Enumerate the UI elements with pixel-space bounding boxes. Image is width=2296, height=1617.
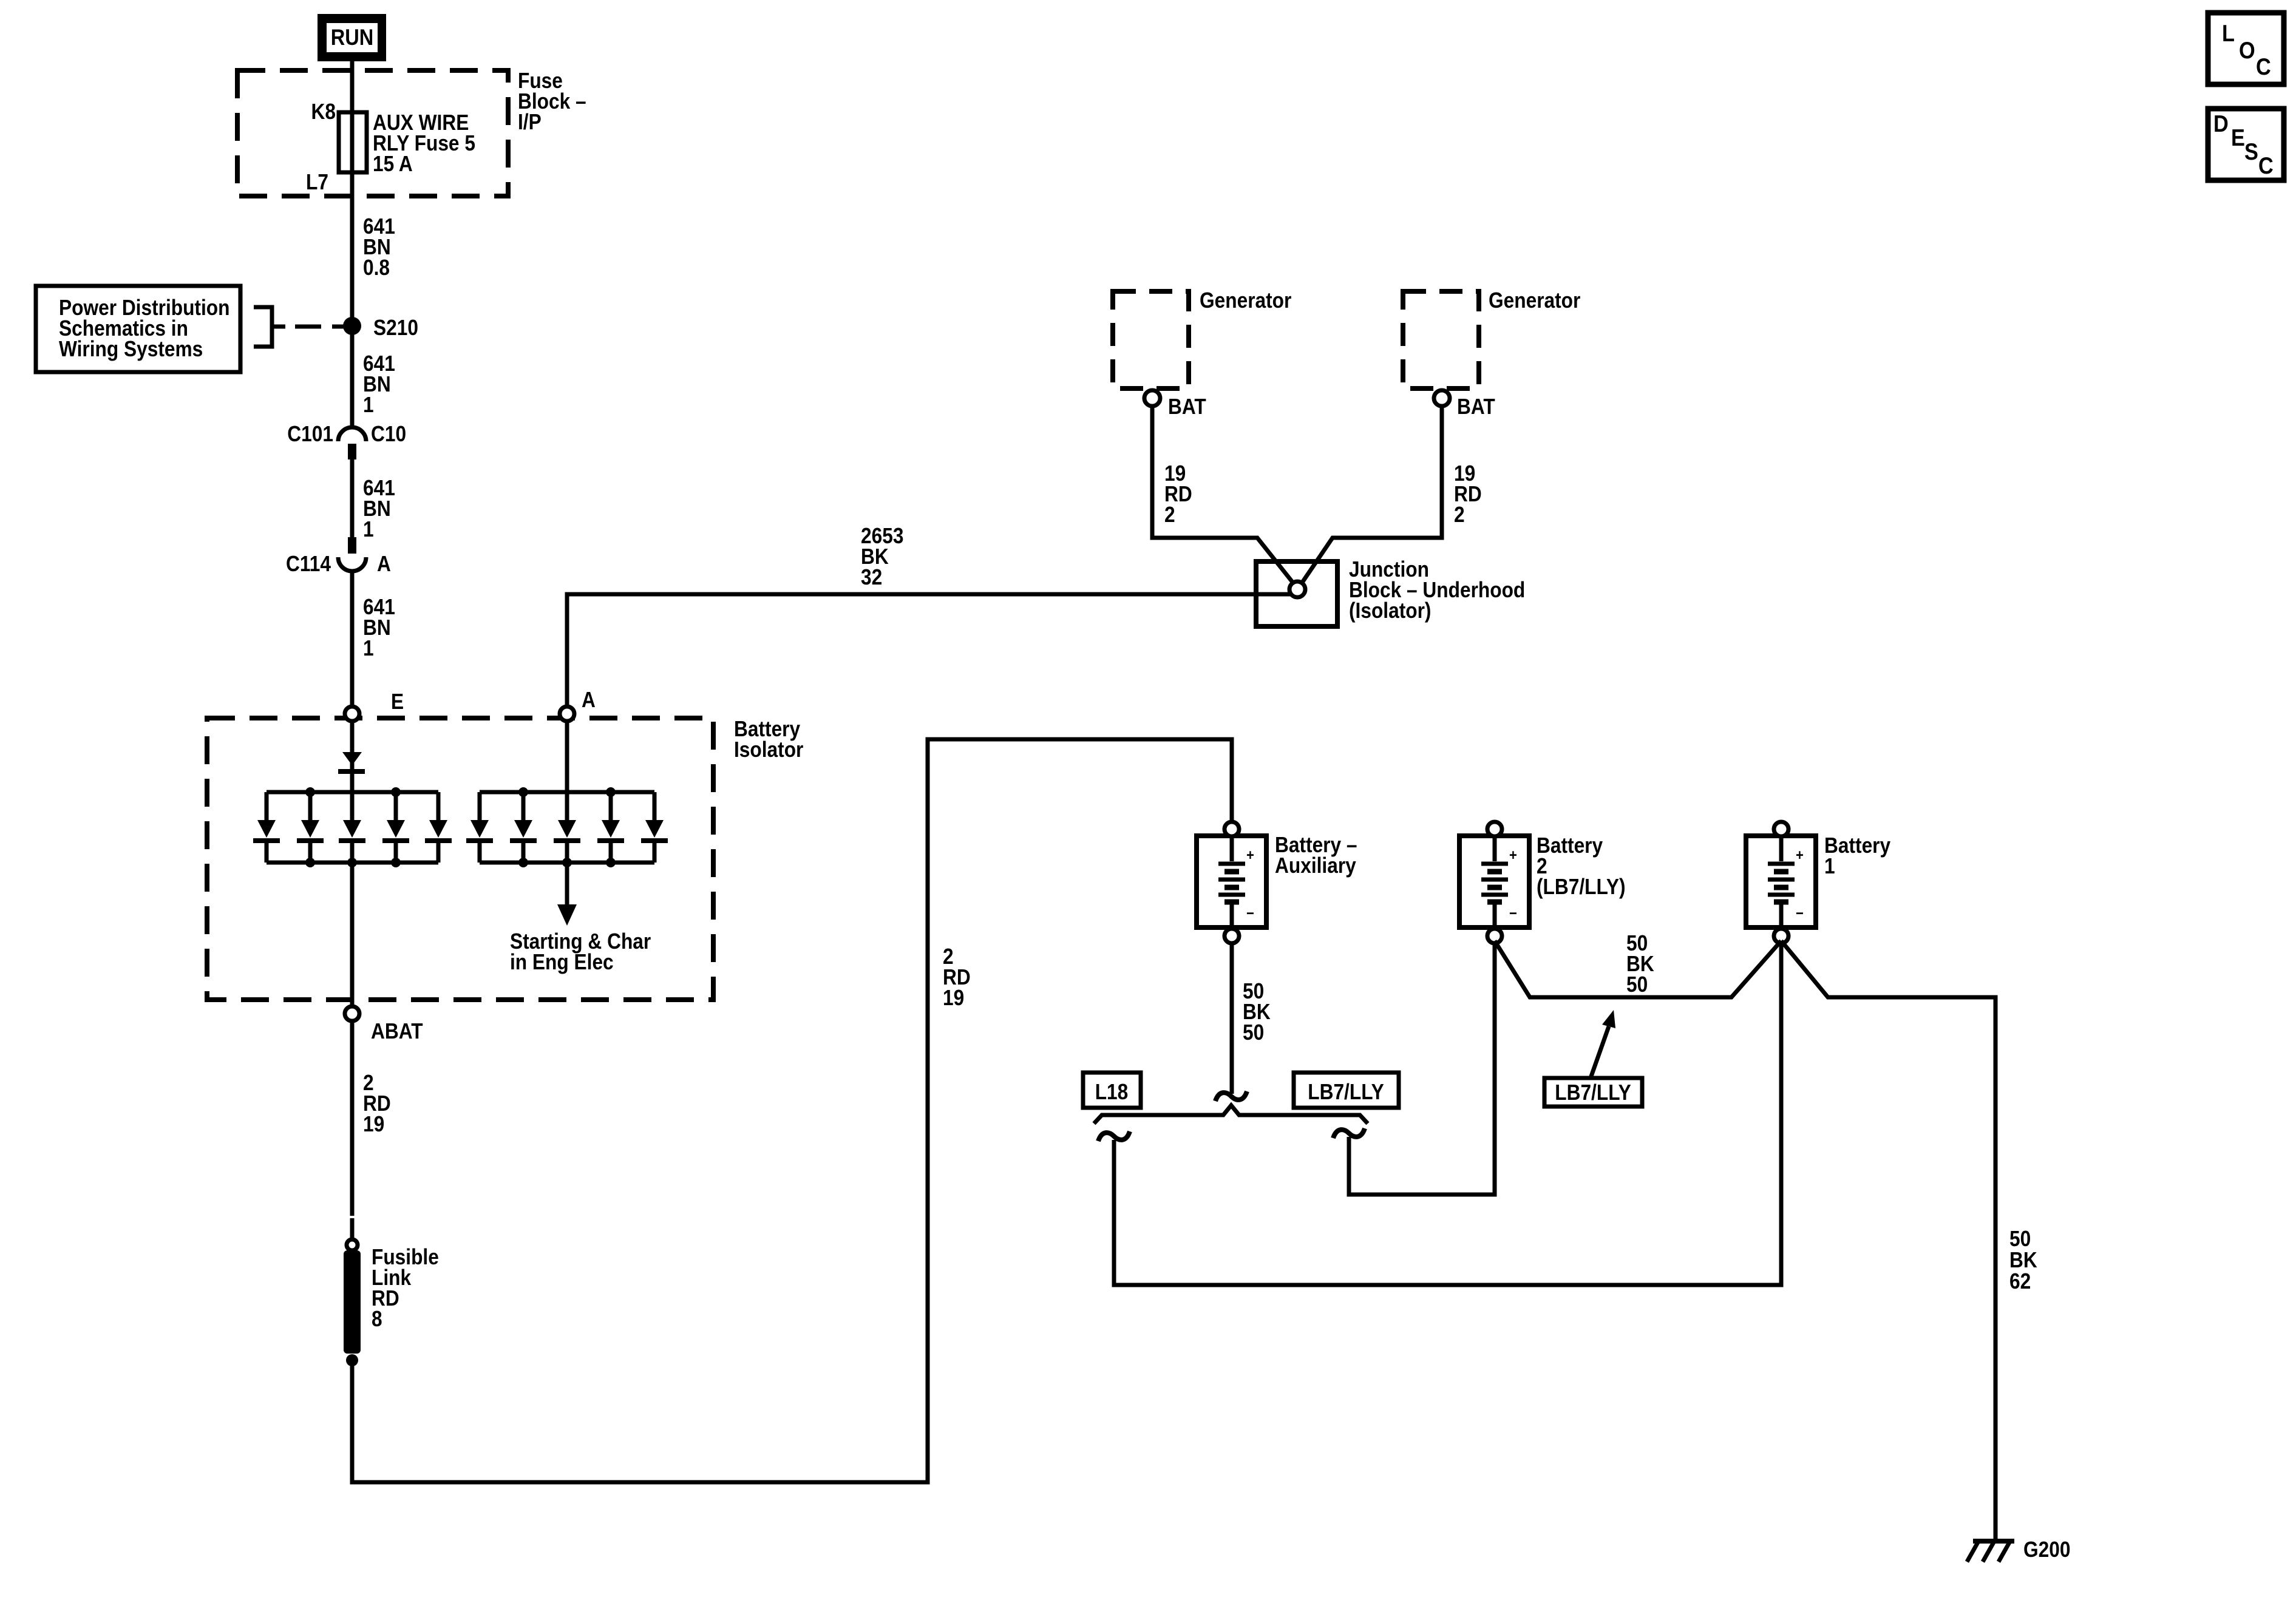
svg-text:−: −	[1246, 905, 1254, 922]
DESC legend box	[2208, 109, 2284, 180]
isolator diode at x=1078	[653, 792, 657, 820]
svg-text:C114: C114	[286, 552, 331, 576]
LB7/LLY branch wire to battery 2 negative	[1349, 943, 1495, 1195]
svg-text:Isolator: Isolator	[734, 737, 803, 762]
svg-text:(LB7/LLY): (LB7/LLY)	[1537, 875, 1626, 899]
junction dots right bank	[518, 787, 528, 797]
svg-text:1: 1	[1824, 854, 1835, 878]
wire E into isolator	[350, 721, 355, 820]
isolator diode at x=722	[436, 792, 441, 820]
svg-text:RUN: RUN	[331, 25, 374, 50]
svg-text:Generator: Generator	[1489, 288, 1580, 313]
terminal E node circle	[345, 707, 359, 721]
svg-text:(Isolator): (Isolator)	[1349, 598, 1431, 623]
battery isolator dashed box	[207, 718, 713, 1000]
junction block underhood isolator	[1256, 561, 1337, 626]
wire C101 to C114	[350, 459, 355, 537]
svg-text:A: A	[377, 552, 391, 576]
svg-text:E: E	[391, 690, 404, 714]
svg-text:32: 32	[861, 565, 882, 589]
LOC legend box	[2208, 13, 2284, 84]
wire fusible link to Battery Auxiliary (2 RD 19)	[352, 739, 1232, 1482]
isolator diode at x=511	[308, 792, 313, 820]
engine option brace	[1094, 1105, 1368, 1124]
generator dashed box at x=2311	[1403, 291, 1479, 388]
svg-text:S210: S210	[373, 316, 418, 340]
svg-text:+: +	[1796, 847, 1804, 864]
wire RUN to S210 (641 BN)	[350, 61, 355, 429]
battery terminal circles at x=2934	[1779, 836, 1784, 861]
svg-text:Generator: Generator	[1200, 288, 1291, 313]
wire gen1 BAT to junction block (19 RD 2)	[1152, 406, 1295, 585]
wire ABAT to fusible link (2 RD 19)	[350, 1021, 355, 1216]
wire isolator to ABAT	[350, 863, 355, 1006]
svg-text:LB7/LLY: LB7/LLY	[1555, 1080, 1631, 1105]
isolator diode at x=439	[265, 792, 269, 820]
generator 1 BAT terminal	[1144, 390, 1160, 406]
wire terminal A to junction block (2653 BK 32)	[567, 594, 1294, 707]
connector C101 C10	[338, 427, 366, 441]
svg-text:BAT: BAT	[1168, 395, 1206, 419]
isolator right diode bank bus	[480, 790, 654, 795]
isolator diode at x=1006	[609, 792, 613, 820]
svg-text:L: L	[2222, 20, 2235, 47]
LB7/LLY branch squiggle	[1333, 1128, 1365, 1138]
bracket to note box	[254, 307, 272, 347]
generator dashed box at x=1833	[1113, 291, 1189, 388]
dashed leader to S210	[272, 325, 344, 329]
svg-text:2: 2	[1164, 503, 1175, 527]
isolator diode at x=790	[478, 792, 482, 820]
L18 branch squiggle	[1098, 1131, 1130, 1141]
ground G200	[1973, 1539, 2014, 1544]
svg-text:1: 1	[363, 393, 374, 417]
svg-text:K8: K8	[311, 100, 336, 124]
svg-text:O: O	[2239, 37, 2255, 64]
svg-text:C10: C10	[371, 422, 406, 446]
svg-text:1: 1	[363, 636, 374, 660]
svg-text:E: E	[2231, 124, 2245, 151]
svg-text:1: 1	[363, 517, 374, 541]
keyswitch RUN box	[318, 14, 386, 61]
battery terminal circles at x=2029	[1230, 836, 1234, 861]
wire gen2 BAT to junction block (19 RD 2)	[1300, 406, 1442, 585]
wire C114 to terminal E	[350, 571, 355, 707]
terminal ABAT	[345, 1006, 359, 1021]
wire battery2 to battery1 negative (50 BK 50)	[1495, 941, 1781, 997]
terminal A node circle	[560, 707, 574, 721]
svg-text:ABAT: ABAT	[371, 1019, 423, 1043]
battery terminal circles at x=2462	[1493, 836, 1497, 861]
note box Power Distribution Schematics in Wiring Systems	[36, 286, 240, 372]
svg-text:0.8: 0.8	[363, 256, 390, 280]
svg-text:L7: L7	[306, 170, 328, 194]
svg-text:in Eng Elec: in Eng Elec	[510, 950, 614, 974]
junction dots left bank	[305, 787, 315, 797]
svg-text:50: 50	[1243, 1020, 1264, 1045]
svg-text:Auxiliary: Auxiliary	[1275, 853, 1356, 878]
wire A into isolator	[565, 721, 569, 820]
svg-text:+: +	[1509, 847, 1517, 864]
wire battery1 negative to ground (50 BK 62)	[1781, 941, 1995, 1541]
fuse block I/P dashed box	[237, 70, 508, 196]
isolator diode at x=862	[521, 792, 526, 820]
svg-text:I/P: I/P	[518, 110, 542, 134]
svg-text:D: D	[2213, 110, 2229, 137]
isolator left diode bank bus	[267, 790, 438, 795]
L18 branch wire to battery 1 negative	[1114, 943, 1781, 1285]
wire break squiggle above brace	[1215, 1091, 1247, 1101]
fuse AUX WIRE RLY Fuse 5 15A	[339, 112, 367, 172]
splice S210	[343, 317, 361, 335]
svg-text:+: +	[1246, 847, 1254, 864]
fusible link RD 8	[347, 1239, 358, 1250]
svg-text:8: 8	[372, 1307, 382, 1331]
svg-text:19: 19	[363, 1112, 384, 1136]
svg-text:C: C	[2258, 152, 2274, 179]
isolator diode at x=934	[565, 792, 569, 820]
svg-text:−: −	[1796, 905, 1804, 922]
svg-text:19: 19	[943, 986, 964, 1010]
svg-text:15 A: 15 A	[373, 152, 413, 176]
svg-text:LB7/LLY: LB7/LLY	[1308, 1080, 1384, 1104]
svg-text:BAT: BAT	[1457, 395, 1495, 419]
svg-text:G200: G200	[2023, 1537, 2070, 1562]
svg-text:2: 2	[1454, 503, 1465, 527]
svg-text:−: −	[1509, 905, 1517, 922]
generator 2 BAT terminal	[1434, 390, 1450, 406]
isolator diode at x=652	[394, 792, 398, 820]
svg-text:50: 50	[1626, 972, 1648, 997]
option tag LB7/LLY	[1294, 1073, 1399, 1108]
svg-text:S: S	[2244, 138, 2258, 165]
svg-text:A: A	[582, 688, 596, 712]
connector C114 A	[348, 537, 356, 554]
svg-text:Wiring Systems: Wiring Systems	[59, 337, 203, 361]
svg-text:62: 62	[2009, 1269, 2031, 1293]
svg-text:L18: L18	[1095, 1080, 1129, 1104]
isolator diode at x=580	[350, 792, 355, 820]
wire battery aux negative down (50 BK 50)	[1230, 943, 1234, 1094]
arrow to Starting & Charging	[565, 863, 569, 906]
isolator series diode	[342, 752, 362, 765]
svg-text:C: C	[2256, 53, 2271, 80]
svg-text:C101: C101	[287, 422, 333, 446]
LB7/LLY callout tag with arrow	[1544, 1078, 1642, 1107]
wire break gap	[350, 1218, 355, 1241]
option tag L18	[1083, 1073, 1141, 1108]
